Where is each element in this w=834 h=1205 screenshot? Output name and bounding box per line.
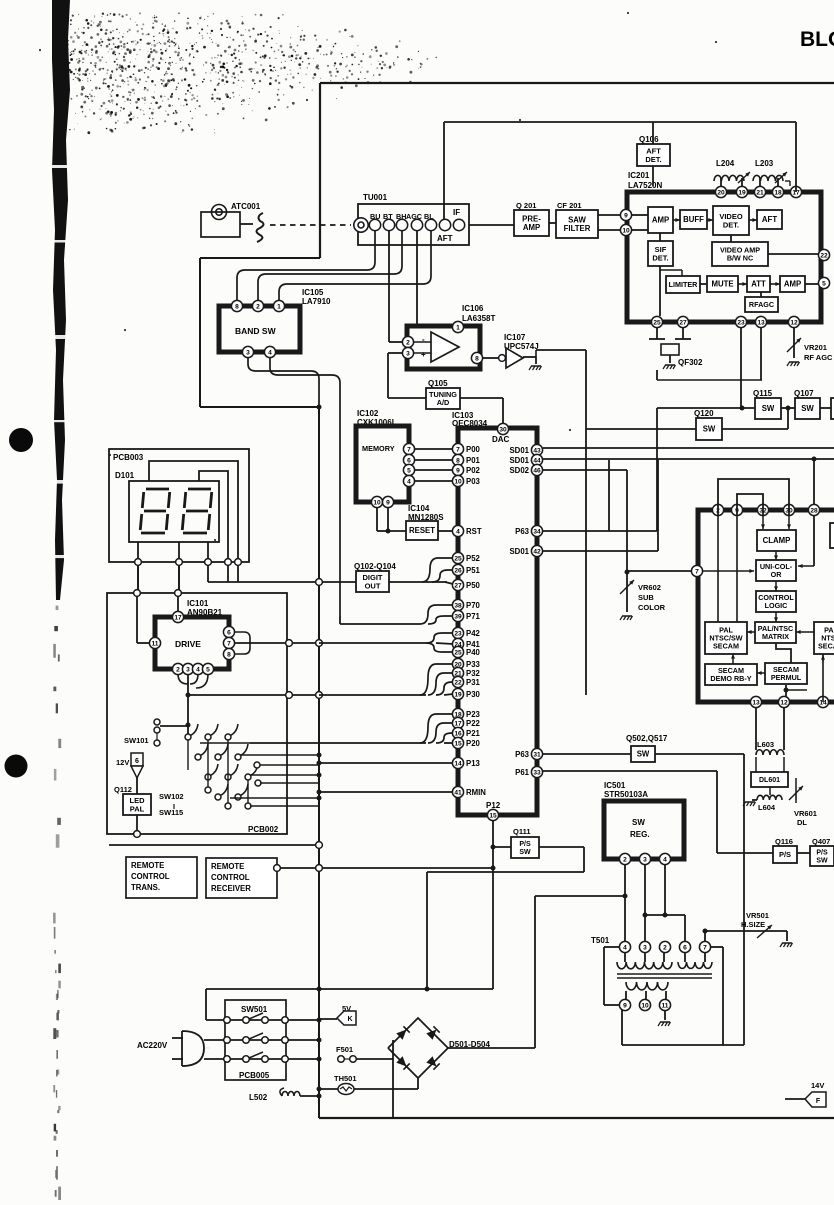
svg-text:P33: P33	[466, 660, 481, 669]
svg-text:8: 8	[235, 303, 239, 310]
svg-text:CF 201: CF 201	[557, 201, 582, 210]
svg-text:SAW: SAW	[568, 215, 586, 224]
svg-text:T501: T501	[591, 936, 610, 945]
svg-text:BAND SW: BAND SW	[235, 326, 277, 336]
svg-text:AMP: AMP	[523, 223, 540, 232]
svg-text:MUTE: MUTE	[711, 280, 733, 289]
svg-text:P51: P51	[466, 566, 481, 575]
svg-text:P02: P02	[466, 466, 481, 475]
svg-text:2: 2	[406, 339, 410, 346]
svg-text:7: 7	[703, 944, 707, 951]
svg-text:7: 7	[456, 446, 460, 453]
svg-text:F501: F501	[336, 1045, 353, 1054]
svg-text:SECAM: SECAM	[713, 642, 739, 651]
svg-text:K: K	[347, 1016, 352, 1023]
svg-text:RST: RST	[466, 527, 482, 536]
svg-text:12: 12	[780, 699, 788, 706]
svg-text:39: 39	[454, 613, 462, 620]
svg-text:19: 19	[738, 189, 746, 196]
svg-text:OR: OR	[771, 570, 783, 579]
svg-text:ATT: ATT	[751, 280, 766, 289]
svg-text:8: 8	[227, 651, 231, 658]
svg-text:REMOTE: REMOTE	[131, 861, 164, 870]
svg-text:46: 46	[533, 467, 541, 474]
svg-text:7: 7	[227, 640, 231, 647]
svg-text:12V: 12V	[116, 758, 129, 767]
svg-text:4: 4	[623, 944, 627, 951]
svg-text:LA7520N: LA7520N	[628, 181, 662, 190]
svg-text:A/D: A/D	[437, 398, 450, 407]
svg-text:P00: P00	[466, 445, 481, 454]
svg-text:15: 15	[454, 740, 462, 747]
svg-text:P70: P70	[466, 601, 481, 610]
svg-text:1: 1	[277, 303, 281, 310]
svg-text:P/S: P/S	[519, 841, 531, 848]
svg-text:AMP: AMP	[652, 216, 669, 225]
svg-text:PCB002: PCB002	[248, 825, 279, 834]
svg-text:SUB: SUB	[638, 593, 654, 602]
svg-text:+: +	[421, 350, 426, 359]
svg-text:LA6358T: LA6358T	[462, 314, 495, 323]
svg-text:P22: P22	[466, 719, 481, 728]
svg-text:9: 9	[624, 212, 628, 219]
svg-text:TU001: TU001	[363, 193, 388, 202]
svg-text:LA7910: LA7910	[302, 297, 331, 306]
svg-text:PERMUL: PERMUL	[771, 673, 802, 682]
svg-text:PRE-: PRE-	[522, 214, 541, 223]
svg-text:AC220V: AC220V	[137, 1041, 168, 1050]
svg-text:IC201: IC201	[628, 171, 650, 180]
svg-text:SD02: SD02	[509, 466, 529, 475]
svg-text:P52: P52	[466, 554, 481, 563]
svg-text:IC101: IC101	[187, 599, 209, 608]
svg-text:Q115: Q115	[753, 389, 773, 398]
svg-text:25: 25	[454, 555, 462, 562]
svg-text:P23: P23	[466, 710, 481, 719]
svg-text:MEMORY: MEMORY	[362, 444, 395, 453]
svg-text:22: 22	[820, 252, 828, 259]
svg-text:DEMO RB-Y: DEMO RB-Y	[710, 674, 751, 683]
svg-text:PCB005: PCB005	[239, 1071, 270, 1080]
svg-text:P32: P32	[466, 669, 481, 678]
svg-text:31: 31	[533, 751, 541, 758]
svg-text:17: 17	[454, 720, 462, 727]
svg-text:D101: D101	[115, 471, 135, 480]
svg-text:3: 3	[406, 350, 410, 357]
svg-text:RESET: RESET	[409, 526, 435, 535]
svg-text:TRANS.: TRANS.	[131, 883, 160, 892]
svg-text:4: 4	[268, 349, 272, 356]
svg-text:6: 6	[683, 944, 687, 951]
svg-text:LOGIC: LOGIC	[765, 601, 788, 610]
svg-text:Q120: Q120	[694, 409, 714, 418]
svg-text:18: 18	[774, 189, 782, 196]
svg-text:20: 20	[717, 189, 725, 196]
svg-text:4: 4	[663, 856, 667, 863]
svg-text:6: 6	[135, 758, 139, 765]
svg-text:2: 2	[256, 303, 260, 310]
svg-text:AFT: AFT	[762, 215, 777, 224]
svg-text:Q112: Q112	[114, 785, 132, 794]
svg-text:7: 7	[407, 446, 411, 453]
svg-text:AMP: AMP	[784, 280, 801, 289]
svg-text:13: 13	[752, 699, 760, 706]
svg-text:RECEIVER: RECEIVER	[211, 884, 251, 893]
svg-text:41: 41	[454, 789, 462, 796]
svg-text:REMOTE: REMOTE	[211, 862, 244, 871]
svg-text:8: 8	[475, 355, 479, 362]
svg-text:B/W NC: B/W NC	[727, 254, 753, 263]
svg-text:Q 201: Q 201	[516, 201, 536, 210]
svg-text:14V: 14V	[811, 1081, 824, 1090]
svg-text:VR201: VR201	[804, 343, 827, 352]
svg-text:P63: P63	[515, 527, 530, 536]
svg-text:12: 12	[790, 319, 798, 326]
svg-text:P01: P01	[466, 456, 481, 465]
svg-text:P/S: P/S	[779, 850, 791, 859]
svg-text:RFAGC: RFAGC	[749, 300, 774, 309]
svg-text:P03: P03	[466, 477, 481, 486]
svg-text:P12: P12	[486, 801, 501, 810]
svg-text:VR501: VR501	[746, 911, 769, 920]
svg-text:42: 42	[533, 548, 541, 555]
svg-text:2: 2	[176, 666, 180, 673]
svg-text:21: 21	[756, 189, 764, 196]
svg-text:25: 25	[454, 649, 462, 656]
svg-text:P31: P31	[466, 678, 481, 687]
svg-text:IF: IF	[453, 208, 460, 217]
svg-text:22: 22	[454, 679, 462, 686]
svg-text:3: 3	[186, 666, 190, 673]
svg-text:L203: L203	[755, 159, 774, 168]
svg-text:P30: P30	[466, 690, 481, 699]
svg-text:SW: SW	[703, 425, 716, 434]
svg-text:7: 7	[695, 568, 699, 575]
svg-text:19: 19	[454, 691, 462, 698]
svg-text:RMIN: RMIN	[466, 788, 486, 797]
svg-text:25: 25	[653, 319, 661, 326]
svg-text:ATC001: ATC001	[231, 202, 261, 211]
svg-text:9: 9	[623, 1002, 627, 1009]
svg-text:11: 11	[152, 640, 159, 647]
svg-text:Q116: Q116	[775, 837, 793, 846]
svg-text:Q107: Q107	[794, 389, 814, 398]
svg-text:3: 3	[643, 856, 647, 863]
svg-text:DET.: DET.	[652, 253, 668, 262]
svg-text:P50: P50	[466, 581, 481, 590]
svg-text:27: 27	[679, 319, 687, 326]
svg-text:OUT: OUT	[365, 581, 381, 590]
svg-text:SW115: SW115	[159, 808, 183, 817]
svg-text:IC106: IC106	[462, 304, 484, 313]
svg-text:P42: P42	[466, 629, 481, 638]
svg-text:DET.: DET.	[723, 220, 739, 229]
svg-text:1: 1	[456, 324, 460, 331]
svg-text:17: 17	[174, 614, 182, 621]
svg-text:30: 30	[499, 426, 507, 433]
svg-text:P13: P13	[466, 759, 481, 768]
svg-text:10: 10	[373, 499, 381, 506]
svg-text:26: 26	[454, 567, 462, 574]
svg-text:PAL: PAL	[130, 804, 145, 813]
svg-text:IC107: IC107	[504, 333, 526, 342]
svg-text:L603: L603	[757, 740, 774, 749]
svg-text:11: 11	[662, 1002, 669, 1009]
svg-text:28: 28	[810, 507, 818, 514]
svg-text:P71: P71	[466, 612, 481, 621]
svg-text:43: 43	[533, 447, 541, 454]
svg-text:L502: L502	[249, 1093, 268, 1102]
svg-text:VR601: VR601	[794, 809, 817, 818]
svg-text:23: 23	[737, 319, 745, 326]
svg-text:10: 10	[454, 478, 462, 485]
svg-text:SD01: SD01	[509, 456, 529, 465]
svg-text:IC105: IC105	[302, 288, 324, 297]
svg-text:CONTROL: CONTROL	[131, 872, 170, 881]
svg-text:9: 9	[386, 499, 390, 506]
svg-text:10: 10	[641, 1002, 649, 1009]
svg-text:Q106: Q106	[639, 135, 659, 144]
svg-text:SD01: SD01	[509, 446, 529, 455]
svg-text:6: 6	[227, 629, 231, 636]
svg-text:STR50103A: STR50103A	[604, 790, 648, 799]
svg-text:SD01: SD01	[509, 547, 529, 556]
svg-text:2: 2	[623, 856, 627, 863]
svg-text:5: 5	[206, 666, 210, 673]
svg-text:DL601: DL601	[759, 777, 780, 784]
svg-text:SW: SW	[762, 404, 775, 413]
svg-text:SW: SW	[816, 857, 828, 864]
svg-text:DAC: DAC	[492, 435, 510, 444]
svg-text:IC102: IC102	[357, 409, 379, 418]
svg-text:SW501: SW501	[241, 1005, 268, 1014]
svg-text:4: 4	[456, 528, 460, 535]
svg-text:RF AGC: RF AGC	[804, 353, 833, 362]
svg-text:16: 16	[454, 730, 462, 737]
svg-text:LIMITER: LIMITER	[669, 280, 699, 289]
svg-text:IC104: IC104	[408, 504, 430, 513]
svg-text:P63: P63	[515, 750, 530, 759]
svg-text:SW: SW	[519, 849, 531, 856]
svg-text:SW: SW	[801, 404, 814, 413]
svg-text:IC501: IC501	[604, 781, 626, 790]
svg-text:DET.: DET.	[645, 155, 661, 164]
svg-text:Q111: Q111	[513, 827, 531, 836]
svg-text:FILTER: FILTER	[564, 224, 591, 233]
svg-text:CONTROL: CONTROL	[211, 873, 250, 882]
svg-text:5: 5	[822, 280, 826, 287]
svg-text:Q502,Q517: Q502,Q517	[626, 734, 668, 743]
svg-text:PCB003: PCB003	[113, 453, 144, 462]
svg-text:4: 4	[196, 666, 200, 673]
svg-text:5: 5	[407, 467, 411, 474]
svg-text:BUFF: BUFF	[683, 215, 704, 224]
svg-text:SW: SW	[637, 750, 650, 759]
svg-text:P40: P40	[466, 648, 481, 657]
svg-text:P61: P61	[515, 768, 530, 777]
svg-text:TH501: TH501	[334, 1074, 357, 1083]
svg-text:VR602: VR602	[638, 583, 661, 592]
svg-text:SW102: SW102	[159, 792, 184, 801]
svg-text:38: 38	[454, 602, 462, 609]
svg-text:4: 4	[407, 478, 411, 485]
svg-text:COLOR: COLOR	[638, 603, 666, 612]
svg-text:L604: L604	[758, 803, 776, 812]
svg-text:3: 3	[643, 944, 647, 951]
svg-text:P21: P21	[466, 729, 481, 738]
svg-text:34: 34	[533, 528, 541, 535]
svg-text:P/S: P/S	[816, 849, 828, 856]
svg-text:H.SIZE: H.SIZE	[741, 920, 765, 929]
svg-text:33: 33	[533, 769, 541, 776]
svg-text:BLOC: BLOC	[800, 28, 834, 51]
svg-text:13: 13	[757, 319, 765, 326]
svg-text:DRIVE: DRIVE	[175, 639, 201, 649]
svg-text:10: 10	[622, 227, 630, 234]
svg-text:23: 23	[454, 630, 462, 637]
svg-text:2: 2	[663, 944, 667, 951]
svg-text:15: 15	[489, 812, 497, 819]
svg-text:Q407: Q407	[812, 837, 830, 846]
svg-text:L204: L204	[716, 159, 735, 168]
svg-text:3: 3	[246, 349, 250, 356]
svg-text:SW101: SW101	[124, 736, 149, 745]
svg-text:CLAMP: CLAMP	[763, 536, 791, 545]
svg-text:AFT: AFT	[437, 234, 453, 243]
svg-text:MATRIX: MATRIX	[762, 632, 789, 641]
svg-text:27: 27	[454, 582, 462, 589]
svg-text:6: 6	[407, 457, 411, 464]
svg-text:14: 14	[454, 760, 462, 767]
svg-text:QF302: QF302	[678, 358, 703, 367]
svg-text:DL: DL	[797, 818, 807, 827]
svg-text:44: 44	[533, 457, 541, 464]
svg-text:9: 9	[456, 467, 460, 474]
svg-text:8: 8	[456, 457, 460, 464]
svg-text:P20: P20	[466, 739, 481, 748]
svg-text:F: F	[816, 1098, 821, 1105]
svg-text:SECAM: SECAM	[818, 642, 834, 651]
svg-text:SW: SW	[632, 818, 645, 827]
svg-text:REG.: REG.	[630, 830, 650, 839]
svg-text:Q102-Q104: Q102-Q104	[354, 562, 396, 571]
svg-text:Q105: Q105	[428, 379, 448, 388]
